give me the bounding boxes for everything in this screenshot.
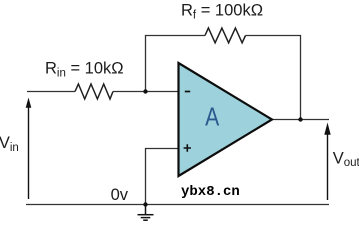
- svg-text:ybx8.cn: ybx8.cn: [181, 184, 240, 200]
- svg-text:0v: 0v: [111, 186, 129, 204]
- svg-text:Rf = 100kΩ: Rf = 100kΩ: [181, 2, 263, 22]
- svg-text:Vout: Vout: [333, 149, 359, 169]
- svg-text:Vin: Vin: [0, 134, 19, 154]
- svg-text:A: A: [205, 103, 219, 131]
- svg-text:Rin = 10kΩ: Rin = 10kΩ: [45, 60, 124, 80]
